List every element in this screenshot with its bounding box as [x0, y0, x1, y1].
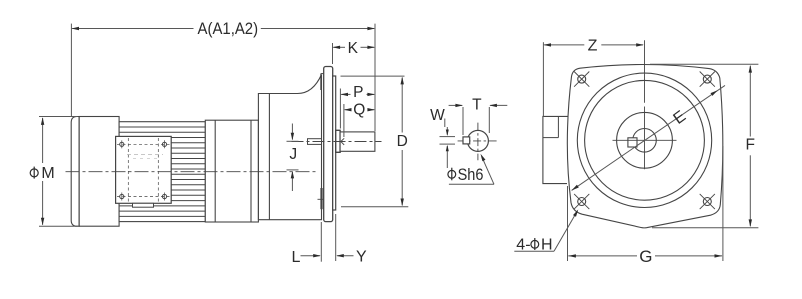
flange bottom rib: [320, 188, 322, 209]
label phiM symbol: [30, 167, 38, 179]
dim T line left: [449, 104, 463, 106]
dim G arrow right: [715, 254, 723, 257]
dim L arrow: [313, 254, 321, 257]
dim phiM line: [42, 118, 44, 163]
motor fin block: [119, 122, 205, 222]
screw tick: [164, 193, 166, 201]
terminal box: [543, 116, 568, 183]
dim Z arrow right: [636, 43, 644, 46]
dim W arrow shaft bottom: [446, 146, 448, 168]
bolt hole: [578, 75, 586, 83]
dim J arrow shaft bottom: [291, 172, 293, 191]
nameplate screw: [120, 142, 124, 146]
dim Q ext left: [343, 104, 345, 137]
phi Sh6 leader arrow: [481, 154, 486, 162]
svg-text:Q: Q: [353, 101, 365, 118]
bolt hole tick: [574, 72, 589, 87]
dim Y line: [337, 255, 353, 257]
shaft section centerline vertical: [477, 123, 479, 161]
svg-text:F: F: [745, 137, 754, 154]
dim J arrow down: [291, 133, 294, 141]
dim Q arrow left: [344, 108, 352, 111]
svg-text:P: P: [353, 84, 363, 101]
nameplate dashed line right: [157, 138, 159, 202]
dim E line: [572, 85, 725, 190]
bolt hole tick: [574, 194, 589, 209]
svg-text:T: T: [472, 97, 482, 114]
dim W ref line top: [440, 136, 456, 138]
output shaft: [340, 132, 375, 151]
dim Q arrow right: [367, 108, 375, 111]
dim Y arrow: [336, 254, 344, 257]
motor centerline: [66, 171, 319, 173]
dim T ext right: [488, 107, 490, 133]
dim F line: [749, 66, 751, 137]
dim F ext bottom: [652, 227, 758, 229]
bracket seam 2: [250, 120, 252, 222]
dim K line: [333, 46, 345, 48]
dim K arrow right: [367, 46, 375, 49]
dim A ext left: [70, 24, 72, 116]
dim T line right: [490, 104, 507, 106]
motor front bracket: [205, 120, 258, 222]
svg-text:L: L: [292, 249, 301, 266]
label phiSh6 symbol: [448, 168, 456, 181]
dim W arrow down: [446, 130, 449, 137]
gear stub shaft: [308, 139, 322, 145]
gearbox housing: [258, 75, 321, 220]
output centerline: [292, 141, 382, 143]
bolt hole tick: [700, 194, 715, 209]
keyway square: [628, 138, 637, 147]
dim D arrow down: [401, 199, 404, 207]
svg-text:A(A1,A2): A(A1,A2): [198, 20, 259, 38]
screw tick: [121, 193, 123, 201]
dim P arrow right: [367, 93, 375, 96]
dim D line: [401, 78, 403, 133]
phi Sh6 underline: [449, 183, 494, 185]
nameplate fine print: [127, 154, 163, 156]
dim T arrow right: [455, 104, 463, 107]
svg-text:D: D: [397, 133, 408, 150]
bolt hole center tick: [318, 198, 328, 200]
dim D arrow up: [401, 77, 404, 85]
shaft chamfer mark: [341, 138, 344, 145]
svg-text:Z: Z: [588, 37, 598, 54]
dim P arrow left: [340, 93, 348, 96]
bolt hole: [703, 198, 711, 206]
dim G arrow left: [568, 254, 576, 257]
dim W arrow shaft top: [446, 127, 448, 135]
dim K arrow left: [333, 46, 341, 49]
4-phiH leader arrow: [573, 209, 578, 216]
fin line: [119, 126, 205, 128]
nameplate screw: [162, 142, 166, 146]
nameplate dashed line bottom: [117, 196, 170, 198]
dim P line: [341, 93, 350, 95]
motor body: [79, 117, 119, 227]
shaft section centerline horizontal: [458, 140, 497, 142]
terminal box seam h: [543, 137, 559, 139]
shaft section circle: [467, 130, 488, 151]
svg-text:Y: Y: [356, 249, 367, 266]
flange hub cylinder: [333, 76, 336, 210]
dim P ext left: [339, 89, 341, 129]
dim G ext left: [567, 186, 569, 261]
dim Y ext line: [335, 214, 337, 261]
dim W leader: [444, 119, 446, 128]
dim Z ext left: [542, 42, 544, 116]
nameplate dashed line left: [127, 138, 129, 202]
terminal box seam v: [557, 116, 559, 137]
bolt hole: [578, 198, 586, 206]
output shaft boss: [336, 130, 340, 152]
screw tick: [164, 140, 166, 148]
dim T arrow left: [489, 104, 497, 107]
nameplate screw: [162, 194, 166, 198]
dim G ext right: [722, 146, 724, 261]
dim A arrow left: [71, 27, 79, 30]
screw tick: [121, 140, 123, 148]
nameplate tab: [133, 203, 154, 207]
dim Q line: [345, 109, 351, 111]
bolt hole: [703, 75, 711, 83]
dim G line: [568, 255, 637, 257]
dim Z line: [544, 44, 584, 46]
svg-text:W: W: [430, 107, 445, 124]
dim E arrow upper: [711, 90, 718, 96]
dim phiM ext top: [39, 116, 78, 118]
dim F arrow up: [749, 65, 752, 73]
4-phiH underline: [514, 250, 554, 252]
dim L line: [301, 255, 320, 257]
flange pilot circle: [585, 80, 705, 200]
dim E arrow lower: [572, 185, 579, 191]
dim J tick bottom: [287, 169, 299, 171]
dim Z arrow left: [543, 43, 551, 46]
dim D ext top: [341, 75, 405, 77]
nameplate screw: [120, 194, 124, 198]
svg-text:K: K: [348, 40, 359, 57]
svg-text:M: M: [41, 165, 54, 182]
flange outer circle: [577, 73, 711, 207]
terminal nameplate: [116, 136, 172, 203]
flange centerline horizontal: [613, 139, 677, 141]
svg-text:Sh6: Sh6: [458, 165, 484, 184]
dim F arrow down: [749, 219, 752, 227]
dim phiM arrow up: [41, 117, 44, 125]
nameplate dashed line top: [117, 143, 170, 145]
gearbox seam: [268, 94, 270, 220]
dim F ext top: [650, 63, 758, 65]
dim D ext bottom: [341, 206, 408, 208]
dim A arrow right: [367, 27, 375, 30]
motor rear cap: [71, 117, 79, 227]
key cross-section: [463, 137, 470, 144]
shaft circle: [633, 129, 657, 153]
dim L ext line: [320, 222, 322, 262]
dim A line: [72, 28, 193, 30]
flange disc: [324, 67, 333, 222]
dim phiM arrow down: [41, 218, 44, 226]
dim K ext left: [332, 43, 334, 64]
bracket seam 1: [214, 120, 216, 222]
dim J tick top: [287, 140, 299, 142]
4-phiH leader: [554, 211, 577, 251]
phi Sh6 leader: [482, 157, 494, 185]
motor cap seam: [78, 117, 80, 227]
dim phiM ext bottom: [39, 225, 78, 227]
svg-text:G: G: [639, 247, 652, 266]
bolt hole tick: [700, 72, 715, 87]
flange centerline vertical: [644, 40, 646, 103]
flange outline: [567, 64, 723, 227]
dim J arrow up: [291, 171, 294, 179]
svg-text:J: J: [289, 146, 297, 163]
dim W arrow up: [446, 145, 449, 152]
dim J arrow shaft top: [291, 124, 293, 140]
bearing boss circle: [617, 112, 673, 168]
dim A ext right: [374, 24, 376, 131]
dim T ext left: [462, 107, 464, 135]
flange top rib: [321, 73, 324, 75]
dim W ref line bottom: [440, 143, 456, 145]
